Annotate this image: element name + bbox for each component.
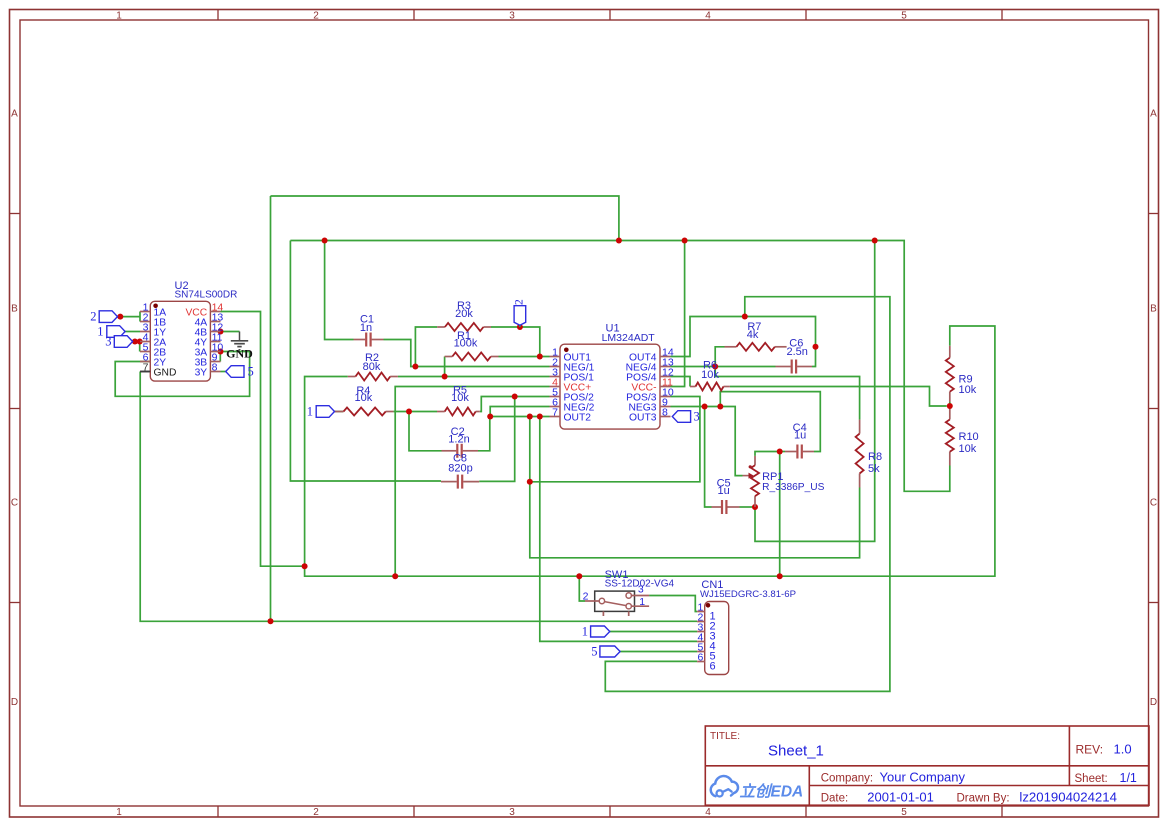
wire: SW1 pin3 to CN1 pin1 <box>649 596 697 612</box>
connector CN1 WJ15EDGRC-3.81-6P <box>697 579 796 675</box>
resistor R4 10k <box>335 385 394 416</box>
wire: OUT2 column down east to CN1 pin4 <box>540 417 697 642</box>
svg-text:10k: 10k <box>451 392 469 404</box>
svg-text:2: 2 <box>90 310 96 324</box>
svg-text:R_3386P_US: R_3386P_US <box>762 482 825 493</box>
wire: port 3 to U2 pin4, pin4-pin5 tie <box>133 341 140 343</box>
wire: x=270.5 vertical from top run to GND run <box>270 196 272 621</box>
wire: VCC+ run down to SW1 pin2 <box>579 576 585 601</box>
wire: C4 left junction down to VCC+ run <box>779 452 781 577</box>
wire: C1 right to U1 NEG/1 row (pin2) <box>384 340 550 367</box>
svg-text:2: 2 <box>583 591 589 603</box>
svg-text:2001-01-01: 2001-01-01 <box>867 790 934 805</box>
resistor R6 10k <box>690 360 730 391</box>
svg-text:820p: 820p <box>448 463 472 475</box>
svg-text:3: 3 <box>509 11 515 22</box>
wire: U1 pin14 OUT4 jog east to R7/C6 right <box>671 317 816 357</box>
svg-text:10k: 10k <box>959 384 977 396</box>
svg-text:10k: 10k <box>701 369 719 381</box>
svg-text:3Y: 3Y <box>195 368 208 379</box>
svg-text:Date:: Date: <box>821 793 849 805</box>
wire: NEG3 junction up east down to C4 right <box>720 392 820 452</box>
wire: U1 pin11 VCC- up to top run <box>671 241 685 387</box>
wire: x=290.4 vertical down to C8 left <box>290 241 441 482</box>
svg-text:1: 1 <box>97 325 103 339</box>
svg-text:GND: GND <box>154 368 177 379</box>
wire: OUT4 branch up-over-down to CN1 pin6 <box>605 297 890 692</box>
title block <box>705 726 1149 805</box>
wire: C6 right up to R7 right junction <box>812 347 816 367</box>
svg-text:D: D <box>11 697 18 708</box>
svg-text:2: 2 <box>313 807 319 818</box>
wire: R3 right down to U1 pin1 <box>491 327 550 357</box>
svg-text:7: 7 <box>143 362 149 374</box>
svg-text:TITLE:: TITLE: <box>710 731 740 742</box>
resistor R5 10k <box>437 384 480 415</box>
svg-text:100k: 100k <box>454 338 478 350</box>
LCEDA logo <box>711 776 804 800</box>
capacitor C1 1n <box>354 314 384 347</box>
svg-text:3: 3 <box>694 410 700 424</box>
IC U1 LM324ADT <box>550 322 674 429</box>
wire: port 1 to CN1 pin3 <box>610 631 697 633</box>
resistor R8 5k <box>856 420 882 488</box>
wire: R7 left down to NEG/4 row <box>715 347 724 367</box>
resistor R9 10k <box>946 346 977 402</box>
svg-text:5: 5 <box>901 807 907 818</box>
capacitor C4 1u <box>785 422 814 458</box>
wire: R4/R5 junction down to C2 left <box>409 412 442 451</box>
resistor R1 100k <box>445 330 499 361</box>
svg-text:10k: 10k <box>355 392 373 404</box>
svg-text:1u: 1u <box>717 485 729 497</box>
net port 3 (U2 pin 4) <box>105 335 132 349</box>
net port 2 (above R3, pointing down) <box>513 299 525 327</box>
wire: U2 pin1-pin2 tie and port 2 feed <box>139 312 141 322</box>
svg-text:R10: R10 <box>959 431 979 443</box>
wire: RP1 bottom down east up to top run junction <box>755 241 875 542</box>
wire: U2 pin14 VCC run down and east <box>221 312 305 567</box>
svg-text:Your Company: Your Company <box>880 770 966 785</box>
net port 1 (U2 pin 3) <box>97 325 125 339</box>
svg-text:5: 5 <box>248 365 254 379</box>
svg-text:Company:: Company: <box>821 773 873 785</box>
svg-text:3: 3 <box>105 335 111 349</box>
net port 2 (U2 pins 1-2) <box>90 310 117 324</box>
svg-text:6: 6 <box>697 652 703 664</box>
wire: U1 pin10 POS/3 down and west to OUT2 column <box>530 397 700 482</box>
wire: C5 right to RP1 bottom <box>740 506 756 508</box>
wire: R4 right to R5 left <box>393 411 437 413</box>
resistor R10 10k <box>946 409 979 466</box>
resistor R7 4k <box>725 321 787 351</box>
svg-text:OUT3: OUT3 <box>629 413 657 424</box>
wire: U2 pin7 GND long run to CN1 pin2 <box>140 372 697 622</box>
svg-text:Sheet_1: Sheet_1 <box>768 743 824 760</box>
svg-text:5: 5 <box>591 645 597 659</box>
wire: port1 to R4 left <box>335 411 344 413</box>
svg-text:1n: 1n <box>360 322 372 334</box>
svg-text:80k: 80k <box>363 361 381 373</box>
wire: POS/2 junction down to C8 right <box>479 397 515 482</box>
svg-text:5: 5 <box>901 11 907 22</box>
svg-text:1.0: 1.0 <box>1114 742 1132 757</box>
svg-text:2: 2 <box>513 299 525 305</box>
svg-text:1: 1 <box>582 625 588 639</box>
svg-text:WJ15EDGRC-3.81-6P: WJ15EDGRC-3.81-6P <box>700 589 796 600</box>
svg-text:2.5n: 2.5n <box>786 346 807 358</box>
svg-text:REV:: REV: <box>1076 743 1104 757</box>
svg-text:Sheet:: Sheet: <box>1075 773 1108 785</box>
svg-text:lz201904024214: lz201904024214 <box>1019 790 1117 805</box>
svg-text:OUT2: OUT2 <box>564 413 592 424</box>
wire: U2 pin7 stub (dark) <box>140 371 150 373</box>
potentiometer RP1 R_3386P_US <box>743 456 825 507</box>
svg-text:4: 4 <box>705 807 711 818</box>
wire: R5 right up to POS/2 row, to U1 pin5 <box>480 397 550 412</box>
wire: U1 pin4 VCC+ row and vertical to VCC+ run <box>395 387 549 577</box>
svg-text:4: 4 <box>705 11 711 22</box>
svg-text:D: D <box>1150 697 1157 708</box>
svg-text:6: 6 <box>710 661 716 673</box>
wire: U1 pin6 NEG/2 down to OUT2 row <box>490 407 549 417</box>
wire: U2 pin12 to GND flag <box>221 331 240 333</box>
svg-text:3: 3 <box>509 807 515 818</box>
capacitor C2 1.2n <box>442 426 479 458</box>
resistor R2 80k <box>348 352 398 381</box>
wire: NEG/4 junction jog down east to R8 top <box>715 367 859 420</box>
wire: R2 left / VCC+ net long loop to R9 top <box>305 326 995 576</box>
svg-text:B: B <box>11 304 18 315</box>
svg-text:1: 1 <box>116 11 122 22</box>
svg-text:10k: 10k <box>959 443 977 455</box>
svg-text:RP1: RP1 <box>762 471 783 483</box>
svg-text:1/1: 1/1 <box>1120 771 1137 785</box>
resistor R3 20k <box>437 300 491 331</box>
svg-text:8: 8 <box>212 362 218 374</box>
svg-text:1: 1 <box>116 807 122 818</box>
svg-text:4k: 4k <box>747 329 759 341</box>
wire: U1 pin9 NEG3 row to RP1 wiper <box>671 407 743 476</box>
wire: R3 left down to NEG/1 row <box>415 327 437 367</box>
wire: port 5 to CN1 pin5 <box>620 651 697 653</box>
svg-text:1: 1 <box>307 405 313 419</box>
svg-text:B: B <box>1150 304 1157 315</box>
net port 5 (CN1 pin 5) <box>591 645 620 659</box>
wire: port 1 to U2 pin3 <box>125 331 140 333</box>
svg-text:SS-12D02-VG4: SS-12D02-VG4 <box>605 579 675 590</box>
capacitor C5 1u <box>712 478 740 514</box>
wire: OUT2 net down-east to R8 bottom <box>530 417 860 558</box>
svg-text:GND: GND <box>226 346 253 360</box>
svg-text:A: A <box>1150 109 1157 120</box>
net port 5 (U2 pin 8) <box>226 365 254 379</box>
wire: U1 pin13 NEG/4 row to C6 left <box>671 366 776 368</box>
svg-text:SN74LS00DR: SN74LS00DR <box>175 290 238 301</box>
wire: C4 left junction <box>780 451 785 453</box>
wire: RP1 top to C4 left junction <box>755 452 780 456</box>
wire: U1 pin12 POS/4 jog down to R6 left <box>671 377 691 387</box>
net port 1 (CN1 pin 3) <box>582 625 610 639</box>
IC U2 SN74LS00DR <box>140 280 237 381</box>
svg-text:R8: R8 <box>868 451 882 463</box>
wire: R1 right to U1 pin1 <box>499 356 541 358</box>
capacitor C8 820p <box>441 453 479 489</box>
ground flag GND <box>226 332 253 361</box>
svg-text:1: 1 <box>639 596 645 608</box>
wire: main top horizontal y=240.5 with loop to R10 bottom <box>290 241 949 492</box>
net port 1 (R4 left) <box>307 405 335 419</box>
wire: R1 left down to POS/1 row <box>444 357 446 377</box>
wire: x=324.6 vertical down to C1 left <box>325 241 354 340</box>
capacitor C6 2.5n <box>776 337 813 373</box>
wire: top run y=196 to junction on y=240.5 run <box>271 196 619 241</box>
svg-text:20k: 20k <box>455 308 473 320</box>
wire: U2 pin6 loop to pin10 <box>115 352 249 397</box>
wire: C2 right up to OUT2 row <box>478 417 490 451</box>
svg-text:A: A <box>11 109 18 120</box>
wire: POS/1 row R2 right to U1 pin3 <box>398 376 550 378</box>
svg-text:2: 2 <box>313 11 319 22</box>
svg-text:8: 8 <box>662 407 668 419</box>
svg-text:C: C <box>1150 498 1157 509</box>
svg-text:Drawn By:: Drawn By: <box>957 793 1010 805</box>
svg-text:立创EDA: 立创EDA <box>740 783 804 801</box>
svg-text:1.2n: 1.2n <box>448 434 469 446</box>
wire: port 5 to U2 pin8 <box>221 371 226 373</box>
svg-text:LM324ADT: LM324ADT <box>602 332 656 344</box>
wire: U2 pin9 tie up to pin10 <box>219 352 221 362</box>
svg-text:5k: 5k <box>868 463 880 475</box>
svg-text:C: C <box>11 498 18 509</box>
svg-text:7: 7 <box>552 407 558 419</box>
wire: R6 right east down to R9/R10 junction <box>730 387 947 407</box>
wire: NEG3 junction down to C5 left <box>705 407 712 508</box>
switch SW1 SS-12D02-VG4 <box>583 569 675 616</box>
wire: OUT2 row to U1 pin7 <box>490 416 550 418</box>
net port 3 (U1 pin 8) <box>672 410 699 424</box>
wire: R9 bottom to junction <box>949 402 951 409</box>
svg-text:1u: 1u <box>794 430 806 442</box>
